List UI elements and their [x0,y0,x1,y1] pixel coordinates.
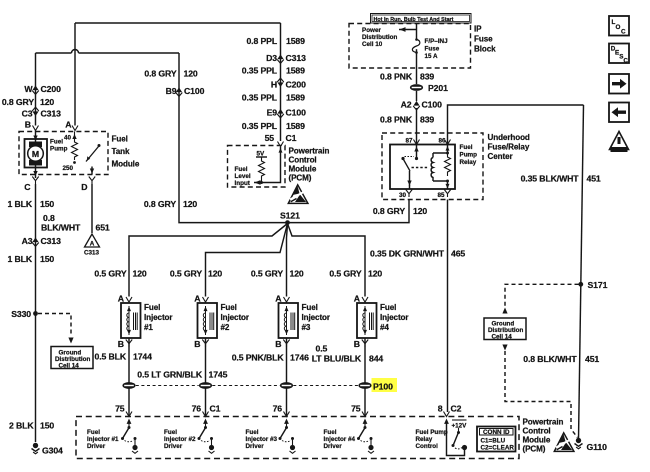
wire 0.8 PNK 839 lower [416,108,418,145]
injector 3 pin A [275,294,289,304]
pin 75 inj4 [351,404,368,417]
svg-text:Injector: Injector [144,313,173,322]
fuel injector 3 [279,303,299,338]
label 0.8 PPL 1589 [246,36,305,46]
label Fuel Injector 3 Driver [246,429,278,450]
svg-text:Power: Power [362,27,381,34]
svg-text:Relay: Relay [460,159,477,166]
svg-text:0.8 GRY: 0.8 GRY [2,97,34,107]
ESD triangle bottom right [554,433,574,452]
label 0.5 BLK 1744 [94,352,152,362]
svg-text:C313: C313 [84,250,100,257]
svg-text:C200: C200 [41,84,62,94]
pin 76 C1 inj2 [192,404,221,417]
svg-text:A: A [194,294,201,304]
label Fuel Pump Relay Control [416,429,448,450]
wire injector 1 to PCM pin 75 [128,338,130,417]
injector 1 pin A [118,294,132,304]
svg-text:(PCM): (PCM) [289,174,312,183]
svg-text:0.8 BLK/WHT: 0.8 BLK/WHT [523,354,577,364]
fuel injector 4 [357,303,377,338]
pin A fuel tank module [65,120,78,131]
svg-text:M: M [32,149,39,159]
dashed harness line between ovals [136,385,358,387]
svg-text:Pump: Pump [50,146,68,153]
wire top rail sender to PPL [75,22,281,24]
pin 8 C2 relay control [438,404,462,417]
label Powertrain Control Module (PCM) bottom [523,418,564,454]
wire fan S121 to injector 2 [206,224,288,297]
wire PPL drop [280,23,282,141]
svg-text:O: O [616,24,621,31]
svg-text:Block: Block [474,45,496,54]
icon DESC box [609,44,629,65]
svg-text:0.8 PPL: 0.8 PPL [246,36,277,46]
svg-text:844: 844 [369,354,383,364]
wire fan S121 to injector 1 [129,224,288,297]
svg-text:40: 40 [64,135,72,142]
svg-text:150: 150 [40,199,54,209]
svg-text:A: A [118,294,125,304]
svg-text:Fuel: Fuel [112,135,128,144]
label IP Fuse Block [474,25,496,54]
injector 4 pin B [354,339,368,349]
connector oval inj3 [280,382,293,389]
svg-text:465: 465 [451,249,465,259]
svg-text:B: B [194,339,200,349]
svg-text:Powertrain: Powertrain [289,147,330,156]
svg-text:8: 8 [438,404,443,414]
svg-text:C100: C100 [184,86,205,96]
svg-text:0.5 GRY: 0.5 GRY [329,269,361,279]
svg-text:H: H [271,80,277,90]
injector 2 pin B [194,339,208,349]
header Hot In Run, Bulb Test And Start [371,14,472,24]
connector D3 C313 [266,53,306,63]
pin D fuel tank module [81,177,95,193]
wire hop at crossing [72,50,79,54]
svg-text:1 BLK: 1 BLK [8,199,33,209]
svg-text:1746: 1746 [290,353,309,363]
label Powertrain Control Module (PCM) top [289,147,330,183]
wire injector 2 to PCM pin 76 [205,338,207,417]
svg-text:Fuel Pump: Fuel Pump [416,429,448,436]
pin 87 [405,138,419,145]
svg-text:30: 30 [399,192,407,199]
svg-text:Module: Module [112,160,140,169]
pin 76 inj3 [273,404,290,417]
connector A2 C100 [401,100,442,110]
label Fuel Injector 2 [221,303,250,332]
svg-text:F/P–INJ: F/P–INJ [425,38,449,45]
svg-text:C2: C2 [451,404,462,414]
svg-text:Cell 14: Cell 14 [492,334,513,341]
label F/P-INJ Fuse 15 A [425,38,449,60]
connector oval inj4 P100 [358,382,371,389]
svg-text:0.8: 0.8 [43,213,55,223]
svg-text:120: 120 [133,269,147,279]
label Fuel Pump [50,139,68,153]
label Fuel Level Input [235,166,251,187]
svg-text:C1: C1 [286,133,297,143]
Fuel Tank Module dashed box [19,132,108,175]
wire B into pump [33,131,37,142]
fuel pump relay control driver [444,419,467,456]
svg-text:75: 75 [115,404,125,414]
wire rail GRY pump feed [36,52,180,54]
relay linkage dashed [412,167,430,169]
CONN ID box [477,427,516,452]
svg-text:Control: Control [416,443,439,450]
svg-text:Control: Control [523,427,551,436]
svg-text:0.35 PPL: 0.35 PPL [242,93,278,103]
svg-text:Fuel: Fuel [221,303,237,312]
injector 3 pin B [275,339,289,349]
svg-text:0.5 PNK/BLK: 0.5 PNK/BLK [232,353,285,363]
svg-text:1589: 1589 [286,36,305,46]
connector A3 C313 [22,236,61,246]
svg-text:1589: 1589 [286,121,305,131]
pin 86 [438,138,450,145]
svg-text:76: 76 [273,404,283,414]
driver fuel injector 3 [279,419,296,454]
svg-text:0.8 GRY: 0.8 GRY [373,206,405,216]
svg-text:B9: B9 [166,86,177,96]
svg-text:P201: P201 [428,83,448,93]
svg-text:651: 651 [96,223,110,233]
svg-text:87: 87 [405,138,413,145]
svg-text:120: 120 [183,199,197,209]
pin 75 inj1 [115,404,132,417]
svg-text:839: 839 [420,72,434,82]
svg-text:Driver: Driver [324,443,343,450]
wire fuel level input path [254,147,283,185]
svg-text:0.5 GRY: 0.5 GRY [94,269,126,279]
svg-text:Injector #3: Injector #3 [246,436,278,443]
svg-text:G304: G304 [42,446,63,456]
svg-text:C2=CLEAR: C2=CLEAR [481,445,515,452]
svg-text:Fuel: Fuel [235,166,248,173]
wire injector 4 to PCM pin 75 [364,338,366,417]
svg-text:120: 120 [40,97,54,107]
ESD triangle above S121 [288,185,308,204]
connector E9 C100 [267,108,306,118]
svg-text:Fuel: Fuel [460,144,473,151]
svg-text:250: 250 [62,165,73,172]
dashed branch S171 to Ground Distribution [502,284,578,313]
svg-text:Control: Control [289,156,317,165]
svg-text:0.35 PPL: 0.35 PPL [242,121,278,131]
svg-text:BLK/WHT: BLK/WHT [41,223,81,233]
svg-text:Module: Module [523,436,551,445]
arrow to Power Distribution [399,27,417,32]
svg-text:Underhood: Underhood [488,133,530,142]
svg-text:Driver: Driver [246,443,265,450]
triangle connector A C313 [84,234,100,257]
connector H C200 [271,78,306,89]
Underhood Fuse/Relay Center dashed box [382,133,483,200]
svg-text:120: 120 [413,206,427,216]
svg-text:S330: S330 [11,309,31,319]
connector C3 C313 [22,107,61,118]
label Power Distribution Cell 10 [362,27,397,48]
fuel level sender resistor [62,132,77,173]
svg-text:120: 120 [208,269,222,279]
wire fan S121 to injector 4 [288,224,366,297]
svg-text:(PCM): (PCM) [523,445,546,454]
svg-text:0.5 LT GRN/BLK: 0.5 LT GRN/BLK [137,370,203,380]
svg-text:75: 75 [351,404,361,414]
svg-text:0.5 BLK: 0.5 BLK [94,352,126,362]
svg-text:Cell 10: Cell 10 [362,41,383,48]
svg-text:0.5 GRY: 0.5 GRY [170,269,202,279]
label Fuel Injector 4 Driver [324,429,356,450]
driver fuel injector 1 [121,419,138,454]
pin C fuel tank module [24,177,38,193]
svg-text:Input: Input [235,180,251,187]
label 1 BLK 150 [8,254,55,264]
label Fuel Pump Relay [460,144,478,166]
injector 1 pin B [118,339,132,349]
fuel injector 2 [198,303,218,338]
svg-text:Level: Level [235,173,251,180]
svg-text:#1: #1 [144,323,153,332]
label 0.5 GRY 120 inj3 [251,269,304,279]
label 0.8 GRY 120 left [2,97,55,107]
label 1 BLK 150 [8,199,55,209]
icon LOC box [609,16,629,36]
svg-text:D: D [81,182,87,192]
svg-text:C3: C3 [22,109,33,119]
svg-text:A: A [354,294,361,304]
svg-text:1589: 1589 [286,93,305,103]
wire sender A drop [74,23,76,126]
ground G304 [32,443,64,456]
svg-text:55: 55 [265,133,275,143]
resistor fuel level pull-up [259,157,265,184]
label 0.8 PNK 839 [380,72,434,82]
svg-text:Tank: Tank [112,147,130,156]
svg-text:S121: S121 [280,211,300,221]
ground G110 [575,438,608,452]
dashed below right GDC box to G110 [502,345,577,438]
svg-text:Fuel: Fuel [380,303,396,312]
svg-text:D3: D3 [266,53,277,63]
svg-text:839: 839 [420,115,434,125]
svg-text:B: B [25,120,31,130]
label 0.5 LT BLU/BLK 844 [312,344,384,364]
svg-text:2 BLK: 2 BLK [9,421,34,431]
wire injector 3 to PCM pin 76 [286,338,288,417]
label Fuel Injector 3 [302,303,331,332]
svg-text:E9: E9 [267,108,278,118]
label Fuel Tank Module [112,135,140,169]
connector label P100 highlighted [372,378,398,392]
driver fuel injector 4 [357,419,374,454]
label 2 BLK 150 [9,421,54,431]
svg-text:C100: C100 [422,100,443,110]
connector B9 C100 [166,86,205,96]
svg-text:0.8 PNK: 0.8 PNK [380,72,413,82]
pin B fuel tank module [25,120,39,131]
IP Fuse Block dashed box [349,24,471,69]
svg-text:1744: 1744 [133,352,152,362]
svg-text:Powertrain: Powertrain [523,418,564,427]
injector 4 pin A [354,294,368,304]
svg-text:0.35 DK GRN/WHT: 0.35 DK GRN/WHT [370,249,445,259]
connector W C200 [24,84,61,94]
svg-text:Injector #1: Injector #1 [87,436,119,443]
wire P201 to C100 [416,91,418,101]
svg-text:1589: 1589 [286,66,305,76]
svg-text:0.35 BLK/WHT: 0.35 BLK/WHT [521,174,580,184]
driver fuel injector 2 [198,419,215,454]
label 0.8 BLK/WHT 451 [523,354,599,364]
fuel injector 1 [121,303,141,338]
svg-text:Cell 14: Cell 14 [59,363,80,370]
relay 86 node dots [446,145,450,190]
wire D down to C313 [91,184,93,233]
svg-text:A: A [65,120,72,130]
label Underhood Fuse/Relay Center [488,133,530,161]
svg-text:C313: C313 [286,53,307,63]
svg-text:Driver: Driver [87,443,106,450]
label Fuel Injector 1 Driver [87,429,119,450]
icon right-arrow box [609,74,629,94]
svg-text:120: 120 [290,269,304,279]
svg-text:Distribution: Distribution [362,34,397,41]
icon left-arrow box [609,103,629,123]
relay coil resistor [445,153,451,176]
svg-text:Center: Center [488,152,514,161]
wire PNK from header to fuse [416,23,418,39]
wire 451 right side [579,105,584,440]
svg-text:0.8 GRY: 0.8 GRY [144,199,176,209]
svg-text:W: W [24,84,33,94]
wire relay 85 down [447,200,449,413]
svg-text:0.5: 0.5 [316,344,328,354]
svg-text:Fuel: Fuel [164,429,177,436]
icon warning triangle [610,132,629,153]
svg-text:+12V: +12V [452,423,468,430]
svg-text:Fuse: Fuse [425,46,440,53]
label 0.35 DK GRN/WHT 465 [370,249,465,259]
label 0.35 BLK/WHT 451 [521,174,601,184]
wire relay 86 up and right [448,105,584,145]
connector oval inj1 [122,382,135,389]
PCM bottom dashed box [76,417,519,459]
Ground Distribution Cell 14 box left [51,347,93,370]
wire pump to C [33,166,37,179]
label 0.5 PNK/BLK 1746 [232,353,309,363]
svg-text:120: 120 [368,269,382,279]
svg-text:C313: C313 [41,236,62,246]
relay coil [431,153,447,181]
svg-text:C: C [621,29,626,36]
svg-text:Module: Module [289,165,317,174]
svg-text:Injector: Injector [380,313,409,322]
svg-text:C200: C200 [286,80,307,90]
label 0.35 PPL 1589 [242,121,305,131]
svg-text:IP: IP [474,25,482,34]
PCM fuel level dashed box [228,146,286,188]
label 0.5 GRY 120 inj2 [170,269,223,279]
relay 87 contact [414,145,418,161]
fuse F/P-INJ 15A [412,38,420,54]
svg-text:150: 150 [40,421,54,431]
svg-text:85: 85 [437,192,445,199]
svg-text:Injector #2: Injector #2 [164,436,196,443]
svg-text:0.5 GRY: 0.5 GRY [251,269,283,279]
svg-text:Fuse/Relay: Fuse/Relay [488,143,530,152]
label 0.8 GRY 120 relay [373,206,428,216]
svg-text:Fuel: Fuel [50,139,63,146]
svg-text:0.8 GRY: 0.8 GRY [144,69,176,79]
wire 0.8 PNK 839 upper [416,49,418,84]
svg-text:A: A [275,294,282,304]
wire fan S121 to injector 3 [287,224,288,297]
svg-text:Fuel: Fuel [302,303,318,312]
pin 55 C1 [265,133,297,147]
label 0.5 GRY 120 inj4 [329,269,382,279]
svg-text:451: 451 [585,354,599,364]
label 0.5 LT GRN/BLK 1745 [137,370,227,380]
injector 2 pin A [194,294,208,304]
svg-text:120: 120 [184,69,198,79]
svg-text:Hot In Run, Bulb Test And Star: Hot In Run, Bulb Test And Start [374,17,454,23]
splice S330 [11,309,38,319]
svg-text:150: 150 [40,254,54,264]
label 0.8 GRY 120 lower [144,199,198,209]
svg-text:CONN ID: CONN ID [483,429,510,436]
pin 85 [437,190,450,200]
svg-text:Relay: Relay [416,436,433,443]
5V supply bar [256,151,267,158]
wire left pump feed [35,53,37,126]
label 0.5 GRY 120 inj1 [94,269,147,279]
svg-text:Fuel: Fuel [324,429,337,436]
connector P201 [410,83,448,93]
svg-text:Driver: Driver [164,443,183,450]
svg-text:B: B [275,339,281,349]
wire GRY drop to S121 [179,53,288,223]
svg-text:Injector #4: Injector #4 [324,436,356,443]
Ground Distribution Cell 14 box right [484,318,526,341]
wire C down to G304 [35,184,37,442]
dashed S330 to Ground Distribution [38,314,74,344]
sender wiper arm [86,144,101,175]
svg-text:C1=BLU: C1=BLU [481,438,506,445]
svg-text:S171: S171 [588,280,608,290]
svg-text:Fuse: Fuse [474,35,493,44]
svg-text:A2: A2 [401,100,412,110]
svg-text:#4: #4 [380,323,389,332]
svg-text:B: B [354,339,360,349]
svg-text:76: 76 [192,404,202,414]
label 0.35 PPL 1589 [242,66,305,76]
svg-text:1 BLK: 1 BLK [8,254,33,264]
svg-text:0.8 PNK: 0.8 PNK [380,115,413,125]
label Fuel Injector 2 Driver [164,429,196,450]
splice S171 [578,280,607,290]
svg-text:Fuel: Fuel [87,429,100,436]
svg-text:Injector: Injector [302,313,331,322]
label 0.8 GRY 120 upper [144,69,198,79]
svg-text:Injector: Injector [221,313,250,322]
svg-text:C1: C1 [210,404,221,414]
svg-text:C: C [24,182,31,192]
svg-text:0.35 PPL: 0.35 PPL [242,66,278,76]
